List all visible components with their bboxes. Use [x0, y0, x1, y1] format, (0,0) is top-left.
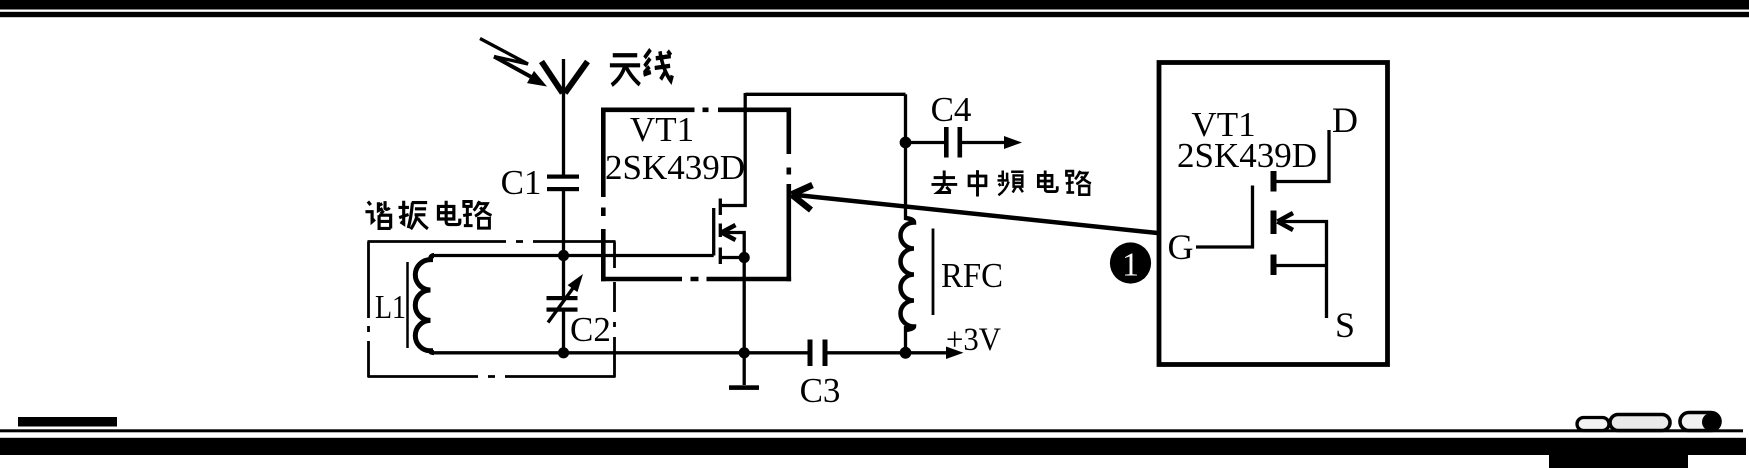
- wire: antenna to C1: [562, 93, 565, 175]
- top border bar (outer): [0, 0, 1749, 10]
- +3V supply arrow: [906, 351, 949, 354]
- bottom thick bar: [0, 438, 1746, 455]
- gate lead G: [1196, 186, 1253, 248]
- node: supply junction: [900, 347, 912, 359]
- svg-text:C1: C1: [501, 163, 542, 202]
- label 去中频电路 (to IF circuit): [931, 170, 1090, 196]
- substrate lead: [1279, 222, 1327, 319]
- substrate arrowhead: [722, 225, 736, 240]
- wire: RFC bottom: [904, 326, 907, 353]
- capacitor C4: [906, 141, 945, 144]
- bottom right tab: [1549, 455, 1688, 468]
- wire: C3 to supply node: [828, 351, 906, 354]
- label 谐振电路 (resonant circuit): [365, 201, 491, 229]
- margin doodle 3: [1680, 413, 1720, 431]
- channel segments: [719, 199, 722, 265]
- inductor RFC: [901, 218, 915, 330]
- drain lead: [720, 93, 745, 206]
- source lead: [1277, 264, 1327, 267]
- node: C2 bottom junction: [558, 347, 569, 358]
- node: C4 junction: [900, 137, 912, 149]
- svg-text:S: S: [1335, 305, 1355, 345]
- wire: tank bottom rail: [432, 351, 808, 354]
- inductor L1: [415, 256, 434, 353]
- ground: [743, 353, 746, 385]
- inductor L1 core bar: [406, 262, 409, 348]
- svg-text:2SK439D: 2SK439D: [605, 148, 745, 187]
- wire: C1 to tank top node: [562, 191, 565, 256]
- marker ❶: [1110, 242, 1151, 283]
- svg-text:1: 1: [1122, 247, 1139, 284]
- antenna: [542, 59, 588, 95]
- svg-text:C3: C3: [800, 371, 841, 410]
- svg-text:L1: L1: [375, 289, 406, 326]
- svg-text:+3V: +3V: [946, 322, 1001, 358]
- node: ground rail junction: [739, 347, 750, 358]
- source lead: [720, 256, 744, 259]
- svg-text:2SK439D: 2SK439D: [1177, 136, 1317, 175]
- svg-text:C4: C4: [931, 90, 972, 129]
- label 天线 (antenna): [610, 50, 672, 86]
- svg-text:VT1: VT1: [630, 110, 694, 149]
- wire: antenna lightning zigzag arrow: [480, 39, 534, 79]
- gate bar: [712, 208, 715, 256]
- margin doodle 1: [1577, 418, 1609, 431]
- bottom page-number block: [18, 417, 117, 427]
- drain lead D: [1277, 130, 1330, 182]
- wire: drain top rail: [745, 93, 905, 96]
- callout arrow to gate 1: [792, 195, 1158, 234]
- node: tank top junction: [558, 250, 569, 261]
- margin doodle 2: [1610, 415, 1670, 431]
- RFC core bar: [932, 229, 935, 316]
- resonant circuit dash-dot box: [368, 242, 616, 378]
- MOSFET VT1 (detail symbol): [1196, 130, 1329, 318]
- wire: top rail down to RFC: [904, 94, 907, 220]
- detail box: [1159, 63, 1388, 365]
- svg-text:G: G: [1168, 227, 1194, 267]
- wire: tank top rail (L1 top to gate): [432, 254, 714, 257]
- MOSFET VT1 (in-circuit symbol): [714, 93, 746, 264]
- node: source junction: [739, 252, 750, 263]
- svg-text:RFC: RFC: [941, 256, 1003, 295]
- capacitor C1: [547, 175, 579, 179]
- svg-text:C2: C2: [570, 310, 611, 349]
- substrate arrow lead: [722, 233, 744, 258]
- top border rule (inner): [0, 12, 1749, 17]
- substrate arrowhead (detail): [1278, 213, 1294, 230]
- svg-text:D: D: [1332, 100, 1358, 140]
- bottom thin rule: [0, 429, 1743, 432]
- transistor VT1 dash-dot box: [601, 108, 791, 282]
- wire: source down to ground rail: [743, 258, 746, 354]
- capacitor C3: [808, 340, 813, 367]
- variable capacitor C2: [562, 256, 565, 297]
- channel bars: [1271, 171, 1277, 275]
